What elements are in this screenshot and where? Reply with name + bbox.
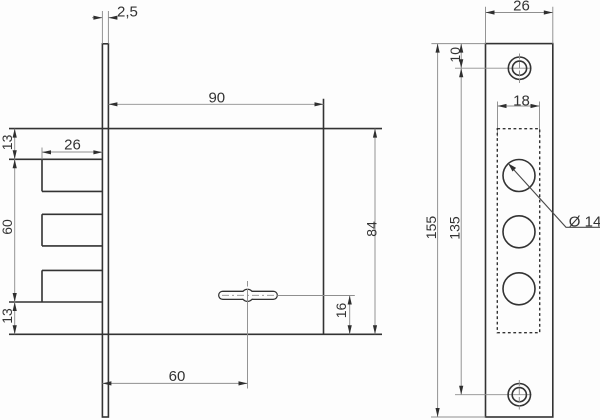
screw hole bottom (508, 380, 530, 410)
bolt 2 (42, 214, 102, 246)
leader line bottom screw hole (455, 394, 532, 396)
dimension 135 (460, 68, 462, 395)
dimension 26 extension line (41, 148, 43, 160)
svg-text:84: 84 (363, 221, 379, 237)
dimension 18 extension lines (498, 102, 540, 137)
faceplate bottom edge extension left (431, 416, 486, 418)
leader line diameter 14 (510, 165, 600, 227)
svg-text:16: 16 (333, 303, 349, 319)
cylinder hole 2 (503, 216, 535, 248)
dimension 16 (349, 296, 351, 335)
dimension 13 top (14, 129, 16, 335)
svg-text:13: 13 (0, 308, 15, 324)
dimension 60 bottom (102, 382, 247, 384)
keyhole centerline vertical (247, 281, 249, 389)
faceplate top edge extension left (431, 43, 485, 45)
svg-text:10: 10 (447, 47, 463, 63)
svg-text:2,5: 2,5 (117, 3, 138, 20)
dimension 2,5 (92, 17, 115, 19)
dimension 26 front extension lines (486, 7, 553, 44)
dimension 84 (374, 129, 376, 335)
svg-text:26: 26 (64, 137, 81, 154)
keyhole centerline horizontal (222, 294, 274, 296)
dashed cutout rectangle (497, 129, 539, 333)
dimension 10 (460, 44, 462, 69)
cylinder hole 3 (503, 273, 535, 305)
bolt 1 (9, 159, 102, 191)
leader line top screw hole (455, 67, 532, 69)
svg-text:60: 60 (0, 219, 15, 235)
lock body bottom edge (9, 333, 382, 335)
screw hole top (508, 54, 530, 84)
svg-text:135: 135 (447, 216, 463, 240)
bolt 3 (9, 270, 102, 302)
dimension 26 front (486, 12, 553, 14)
lock body right edge (323, 99, 325, 334)
svg-text:155: 155 (423, 216, 439, 240)
faceplate side view (102, 44, 108, 417)
svg-text:18: 18 (513, 92, 530, 109)
dimension 26 (42, 151, 102, 153)
dimension 13 bottom (13, 302, 17, 311)
svg-text:26: 26 (513, 0, 530, 14)
dimension 2,5 extension lines (102, 11, 108, 44)
dimension 155 (437, 44, 439, 417)
svg-text:60: 60 (169, 368, 186, 385)
keyhole slot (219, 289, 278, 301)
cylinder hole 1 (503, 160, 535, 192)
lock body top edge (9, 128, 382, 130)
svg-text:Ø 14: Ø 14 (569, 213, 600, 230)
dimension 90 (108, 103, 323, 105)
svg-text:13: 13 (0, 134, 15, 150)
faceplate front view (486, 44, 553, 417)
dimension 18 (498, 105, 540, 107)
dimension 60 left (13, 159, 17, 168)
keyhole extension line right (277, 295, 355, 297)
svg-text:90: 90 (208, 89, 225, 106)
